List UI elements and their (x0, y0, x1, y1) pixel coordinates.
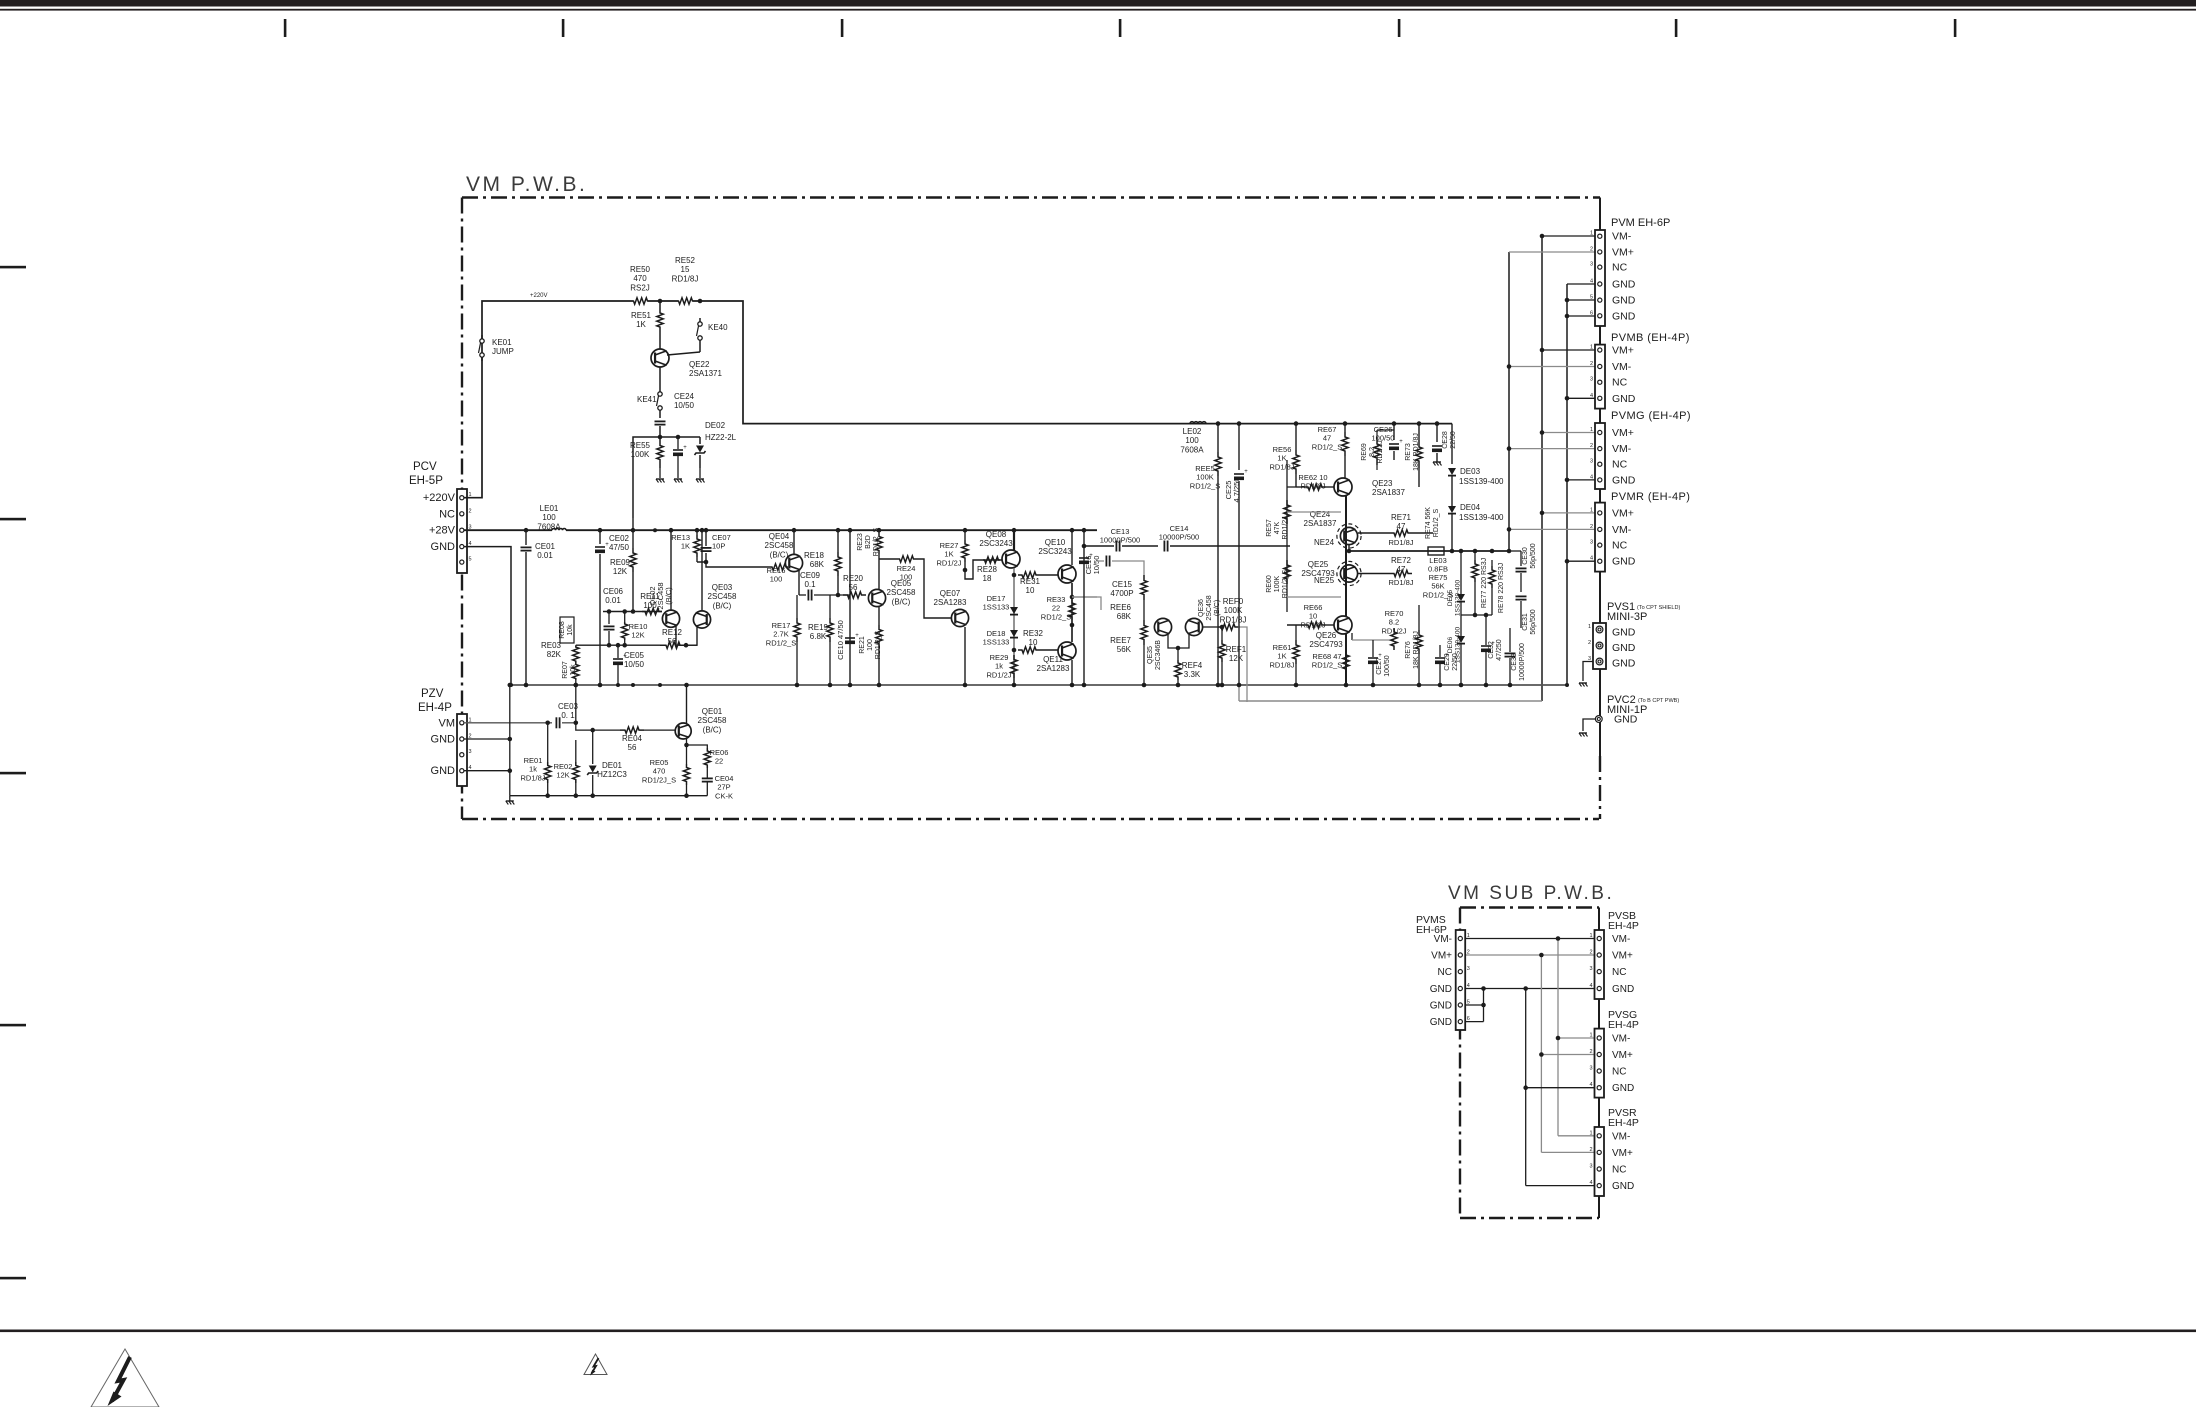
ground symbols under RE55/DE02 (659, 468, 661, 478)
svg-text:RE67: RE67 (1318, 425, 1337, 434)
svg-text:PZV: PZV (421, 688, 444, 700)
svg-text:82K: 82K (547, 650, 562, 659)
resistor RE20 56 (843, 592, 866, 598)
svg-text:1SS139-400: 1SS139-400 (1455, 627, 1462, 664)
svg-text:RD1/8J: RD1/8J (1300, 620, 1325, 629)
resistor REF1 12K (1221, 627, 1223, 640)
svg-text:NC: NC (1612, 967, 1626, 978)
svg-text:CE06: CE06 (603, 587, 624, 596)
svg-text:2SC3243: 2SC3243 (1038, 547, 1072, 556)
svg-text:RD1/2_S: RD1/2_S (1190, 481, 1220, 490)
svg-text:56K: 56K (1431, 582, 1444, 591)
resistor RE10 (624, 612, 626, 623)
wire QE11 collector down (1071, 660, 1073, 685)
transistor QE26 2SC4793 (1334, 616, 1352, 634)
svg-text:QE23: QE23 (1372, 479, 1393, 488)
svg-text:EH-5P: EH-5P (409, 475, 443, 487)
resistor RE23 B2D (878, 530, 880, 533)
resistor RE02 12K (575, 740, 577, 762)
zener DE01 HZ12C3 (592, 730, 594, 764)
svg-text:PVM EH-6P: PVM EH-6P (1611, 217, 1670, 229)
svg-text:EH-4P: EH-4P (1608, 1117, 1639, 1129)
svg-text:(B/C): (B/C) (713, 601, 732, 610)
svg-text:CE31: CE31 (1522, 613, 1529, 631)
wire PVMG pin2 (1509, 448, 1595, 450)
transistor QE35 2SC3468 (1154, 618, 1171, 635)
svg-text:VM P.W.B.: VM P.W.B. (466, 173, 587, 196)
resistor RE72 47 (1358, 573, 1390, 575)
resistor REF4 3.3K (1177, 648, 1179, 660)
resistor RE05 470 (683, 764, 689, 785)
svg-text:PVMR (EH-4P): PVMR (EH-4P) (1611, 491, 1690, 503)
svg-text:10000P/500: 10000P/500 (1100, 536, 1140, 545)
svg-text:RD1/8J: RD1/8J (1388, 538, 1413, 547)
wire PVMS pin6 link (1465, 1021, 1484, 1023)
svg-text:VM-: VM- (1612, 231, 1632, 243)
wire QE35 QE36 emitters (1168, 634, 1189, 648)
svg-text:3: 3 (1589, 1164, 1592, 1170)
svg-text:QE01: QE01 (702, 707, 723, 716)
capacitor CE05 (613, 658, 623, 660)
resistor RE77 220 RS3J (1474, 551, 1476, 560)
svg-text:2: 2 (1589, 950, 1592, 956)
svg-text:QE36: QE36 (1198, 599, 1205, 617)
svg-text:1K: 1K (1277, 454, 1286, 463)
svg-text:0. 1: 0. 1 (561, 711, 575, 720)
junction dots 28V bus (524, 528, 528, 532)
svg-text:2: 2 (1467, 950, 1470, 956)
svg-text:5: 5 (469, 557, 472, 563)
svg-text:1: 1 (1467, 933, 1470, 939)
svg-text:6.8K: 6.8K (810, 632, 827, 641)
svg-text:VM+: VM+ (1612, 345, 1634, 357)
svg-text:4: 4 (1590, 556, 1593, 562)
wire PVM pin1 (1542, 235, 1595, 237)
svg-text:RD1/2J_S: RD1/2J_S (642, 775, 676, 784)
svg-text:4: 4 (1590, 474, 1593, 480)
ground symbol PVS1 (1579, 682, 1587, 684)
svg-text:RE18: RE18 (804, 551, 825, 560)
svg-text:1SS139-400: 1SS139-400 (1459, 513, 1504, 522)
svg-text:2SA1283: 2SA1283 (1037, 664, 1070, 673)
svg-text:RE68 47: RE68 47 (1312, 652, 1341, 661)
wire QE02 collector up (670, 530, 672, 610)
svg-text:1K: 1K (1277, 652, 1286, 661)
svg-text:47: 47 (1323, 434, 1331, 443)
svg-text:2SA1837: 2SA1837 (1372, 488, 1405, 497)
svg-text:NE25: NE25 (1314, 576, 1335, 585)
svg-text:NE24: NE24 (1314, 538, 1335, 547)
svg-text:3: 3 (1590, 262, 1593, 268)
svg-text:RE20: RE20 (843, 574, 864, 583)
svg-text:CE15: CE15 (1112, 580, 1133, 589)
wire QE03 collector up (701, 530, 703, 611)
svg-text:RE32: RE32 (1023, 629, 1044, 638)
resistor RE71 47 (1358, 532, 1390, 534)
svg-text:18K RD1/8J: 18K RD1/8J (1413, 433, 1420, 471)
wire PVS1 ground (1583, 662, 1593, 682)
capacitor CE32 47/250 (1481, 645, 1491, 647)
wire PVM pin2 (1509, 251, 1595, 253)
svg-text:REF0: REF0 (1223, 597, 1244, 606)
svg-text:REE6: REE6 (1110, 603, 1131, 612)
transistor QE36 2SC458 (1185, 618, 1202, 635)
svg-text:2SA1283: 2SA1283 (934, 598, 967, 607)
svg-text:QE22: QE22 (689, 360, 710, 369)
svg-text:RE01: RE01 (524, 756, 543, 765)
wire +220V from PCV pin1 (464, 301, 633, 498)
svg-text:+: + (683, 445, 687, 451)
wire +220V mid (648, 300, 678, 302)
svg-text:QE11: QE11 (1043, 655, 1063, 664)
svg-text:10: 10 (1026, 586, 1035, 595)
wire QE04 collector (793, 530, 795, 554)
wire QE01 ground return (510, 795, 708, 797)
svg-text:2SC458: 2SC458 (708, 592, 737, 601)
svg-text:DE02: DE02 (705, 421, 726, 430)
wire PVMR pin2 (1509, 528, 1595, 530)
svg-text:10k: 10k (570, 664, 577, 676)
svg-text:GND: GND (1612, 627, 1636, 639)
VM P.W.B. board outline (462, 196, 1600, 198)
wire right end to DE03 (1451, 424, 1453, 464)
svg-text:+220V: +220V (530, 293, 548, 299)
wire RE13 CE07 to QE04 base (696, 557, 698, 562)
wire RE24 to QE07 base (916, 559, 951, 618)
svg-text:RE72: RE72 (1391, 556, 1412, 565)
svg-text:KE41: KE41 (637, 395, 657, 404)
svg-text:RD1/2J: RD1/2J (986, 670, 1011, 679)
capacitor CE30 56p/500 (1520, 551, 1522, 566)
svg-text:QE26: QE26 (1316, 631, 1337, 640)
diode DE06 1SS139-400 (1460, 602, 1462, 636)
svg-text:100: 100 (900, 573, 913, 582)
wire PVMR pin4 (1567, 560, 1595, 562)
wire PCV GND pin (464, 547, 511, 685)
svg-text:CE07: CE07 (712, 533, 731, 542)
svg-text:RE03: RE03 (541, 641, 562, 650)
resistor RE24 100 (879, 558, 897, 560)
resistor RE09 (632, 518, 634, 548)
svg-text:15: 15 (681, 265, 690, 274)
svg-text:GND: GND (1612, 556, 1636, 568)
resistor RE78 220 RS3J (1491, 560, 1493, 566)
svg-text:3: 3 (1589, 1066, 1592, 1072)
svg-text:100: 100 (770, 575, 783, 584)
svg-text:47/50: 47/50 (609, 543, 630, 552)
wire QE07 emitter / QE08 base (965, 560, 1002, 579)
wire PVSG pin4 (1526, 1087, 1595, 1089)
svg-text:1: 1 (1590, 231, 1593, 237)
svg-text:EH-4P: EH-4P (1608, 920, 1639, 932)
resistor RE07 10k (573, 663, 579, 680)
wire PVMB pin2 (1509, 366, 1595, 368)
svg-text:RE61: RE61 (1273, 643, 1292, 652)
svg-text:2SC458: 2SC458 (887, 588, 916, 597)
svg-text:0.1: 0.1 (804, 580, 816, 589)
svg-text:CE28: CE28 (1442, 431, 1449, 449)
jumper KE40 (698, 322, 702, 326)
svg-text:RD1/2J: RD1/2J (936, 558, 961, 567)
svg-text:CE01: CE01 (535, 542, 556, 551)
svg-text:6: 6 (1590, 310, 1593, 316)
svg-text:RD1/2_S: RD1/2_S (875, 630, 882, 659)
capacitor CE25 4.7/250 (1238, 424, 1240, 470)
svg-text:RS2J: RS2J (630, 283, 650, 292)
svg-text:RE52: RE52 (675, 256, 696, 265)
svg-text:1K: 1K (944, 550, 953, 559)
svg-text:2SC4793: 2SC4793 (1309, 640, 1343, 649)
resistor RE61 1K (1293, 640, 1299, 664)
svg-text:RE28: RE28 (977, 565, 998, 574)
wire DE04 down (1451, 514, 1453, 551)
capacitor CE13 10000P/500 (1084, 545, 1114, 547)
svg-text:RE75: RE75 (1429, 573, 1448, 582)
svg-text:5: 5 (1467, 1000, 1470, 1006)
resistor RE67 47 (1344, 424, 1346, 432)
svg-text:10/50: 10/50 (674, 401, 695, 410)
svg-text:18: 18 (983, 574, 992, 583)
svg-text:LE02: LE02 (1183, 427, 1202, 436)
wire VM- bus B (1541, 236, 1543, 701)
wire PVSR pin1 (1558, 1135, 1595, 1137)
capacitor CE09 (799, 594, 806, 596)
svg-text:HZ12C3: HZ12C3 (597, 770, 627, 779)
svg-text:NC: NC (1612, 540, 1628, 552)
svg-text:KE40: KE40 (708, 323, 728, 332)
svg-text:1K: 1K (636, 320, 646, 329)
transistor QE22 2SA1371 (659, 332, 661, 350)
svg-text:2SC3243: 2SC3243 (979, 539, 1013, 548)
svg-text:REF1: REF1 (1226, 645, 1247, 654)
warning triangle small (584, 1354, 607, 1375)
svg-text:1: 1 (1590, 507, 1593, 513)
wire PVMR pin1 (1542, 512, 1595, 514)
svg-text:4: 4 (1467, 983, 1470, 989)
capacitor CE15 4700P (1097, 560, 1104, 562)
svg-text:MINI-3P: MINI-3P (1607, 611, 1647, 623)
wire PVMS pin4 to PVSB pin4 (1465, 988, 1595, 990)
svg-text:GND: GND (1612, 642, 1636, 654)
svg-text:GND: GND (1612, 984, 1634, 995)
svg-text:12K: 12K (556, 771, 569, 780)
svg-text:JUMP: JUMP (492, 347, 514, 356)
svg-text:PCV: PCV (413, 461, 437, 473)
svg-text:RE10: RE10 (629, 622, 648, 631)
jumper KE41 (659, 367, 661, 388)
svg-text:VM SUB P.W.B.: VM SUB P.W.B. (1448, 883, 1614, 904)
svg-text:HZ22-2L: HZ22-2L (705, 433, 737, 442)
svg-text:3: 3 (469, 749, 472, 755)
svg-text:RE55: RE55 (630, 441, 651, 450)
svg-text:GND: GND (1612, 658, 1636, 670)
resistor RE11 (642, 608, 662, 614)
wire VM+ drive bus A (1508, 252, 1510, 551)
transistor QE11 2SA1283 (1058, 642, 1076, 660)
svg-text:68K: 68K (810, 560, 825, 569)
svg-text:10000P/500: 10000P/500 (1159, 533, 1199, 542)
svg-text:+: + (1244, 469, 1248, 475)
svg-text:CE30: CE30 (1522, 547, 1529, 565)
svg-text:RD1/8J: RD1/8J (520, 773, 545, 782)
svg-text:47: 47 (1397, 522, 1406, 531)
capacitor CE27 100/50 (1368, 657, 1378, 659)
capacitor CE07 10P (705, 530, 707, 546)
svg-text:RD1/2_S: RD1/2_S (1433, 508, 1440, 537)
svg-text:100K: 100K (1224, 606, 1243, 615)
inductor LE03 (1428, 547, 1444, 555)
wire PVSG pin1 (1558, 1037, 1595, 1039)
svg-text:2SC458: 2SC458 (765, 541, 794, 550)
svg-text:56: 56 (849, 583, 858, 592)
ground symbol QE01 block (506, 800, 514, 802)
svg-text:CE24: CE24 (674, 392, 695, 401)
svg-text:1: 1 (1589, 1130, 1592, 1136)
svg-text:(B/C): (B/C) (703, 725, 722, 734)
svg-text:CE05: CE05 (624, 651, 645, 660)
svg-text:NC: NC (1438, 967, 1452, 978)
svg-text:GND: GND (431, 765, 456, 777)
svg-text:RD1/2_S: RD1/2_S (1312, 442, 1342, 451)
wire PVM pin4 (1567, 283, 1595, 285)
resistor RE13 1K (696, 530, 698, 535)
resistor RE21 100 (878, 607, 880, 625)
svg-text:VM-: VM- (1612, 934, 1630, 945)
svg-text:100: 100 (542, 513, 556, 522)
resistor RE51 (659, 301, 661, 308)
svg-text:RE09: RE09 (610, 558, 631, 567)
resistor RE29 1k (1011, 655, 1017, 678)
svg-text:CE32: CE32 (1488, 641, 1495, 659)
wire PZV GND pins (464, 738, 510, 740)
svg-text:8.2: 8.2 (1389, 618, 1399, 627)
svg-text:47/250: 47/250 (1496, 639, 1503, 661)
wire PVMB pin4 (1567, 397, 1595, 399)
resistor RE76 18K (1416, 630, 1422, 654)
svg-text:10000P/500: 10000P/500 (1519, 643, 1526, 681)
transistor QE07 2SA1283 (951, 609, 968, 626)
svg-text:12K: 12K (631, 631, 644, 640)
wire PVC2 ground (1583, 719, 1595, 731)
svg-text:3: 3 (1590, 540, 1593, 546)
svg-text:2SC458: 2SC458 (698, 716, 727, 725)
diode DE17 1SS133 (1010, 607, 1018, 614)
svg-text:RE66: RE66 (1304, 603, 1323, 612)
svg-text:RD1/8J: RD1/8J (672, 274, 699, 283)
capacitor CE01 (525, 530, 527, 545)
svg-text:7608A: 7608A (537, 522, 561, 531)
svg-text:EH-4P: EH-4P (418, 702, 452, 714)
wire output to CE16 node (1072, 596, 1097, 598)
svg-text:RE56: RE56 (1273, 445, 1292, 454)
svg-text:RD1/2_S: RD1/2_S (766, 638, 796, 647)
wire QE23 base feed (1287, 486, 1296, 488)
wire PVMS pin2 to PVSB pin2 (1465, 954, 1595, 956)
svg-text:QE08: QE08 (986, 530, 1007, 539)
svg-text:RE05: RE05 (650, 758, 669, 767)
svg-text:68K: 68K (1117, 612, 1132, 621)
svg-text:GND: GND (1612, 1083, 1634, 1094)
svg-text:2SC458: 2SC458 (1206, 595, 1213, 620)
wire to RE09 branch (633, 437, 660, 518)
svg-text:100K: 100K (1274, 576, 1281, 593)
resistor REE5 100K (1217, 424, 1219, 452)
svg-text:1: 1 (1589, 933, 1592, 939)
wire REF0 right to output (1238, 627, 1247, 702)
svg-text:DE18: DE18 (987, 629, 1006, 638)
transistor QE08 2SC3243 (1002, 550, 1020, 568)
svg-text:REE7: REE7 (1110, 636, 1131, 645)
svg-text:1: 1 (1590, 427, 1593, 433)
wire +220V to right corner (693, 301, 1452, 424)
resistor REE6 68K (1141, 575, 1147, 600)
svg-text:RE13: RE13 (671, 533, 690, 542)
svg-text:GND: GND (1430, 1001, 1452, 1012)
svg-text:RE12: RE12 (662, 628, 683, 637)
resistor RE03 82K (573, 645, 579, 663)
svg-text:NC: NC (1612, 1067, 1626, 1078)
svg-text:4: 4 (1590, 393, 1593, 399)
svg-text:(B/C): (B/C) (770, 550, 789, 559)
svg-text:LE01: LE01 (540, 504, 559, 513)
svg-text:10P: 10P (712, 542, 725, 551)
svg-text:GND: GND (1430, 984, 1452, 995)
wire QE01 collector up (686, 685, 688, 723)
svg-text:1: 1 (1590, 345, 1593, 351)
wire QE08 emitter down diode chain (1013, 568, 1015, 685)
capacitor CE29 22/50 (1435, 657, 1445, 659)
diode DE04 1SS139-400 (1448, 506, 1456, 513)
svg-text:REF4: REF4 (1182, 661, 1203, 670)
wire QE24 QE25 bases (1287, 511, 1341, 513)
svg-text:VM-: VM- (1612, 1131, 1630, 1142)
svg-text:KE01: KE01 (492, 338, 512, 347)
capacitor CE10 47/50 (849, 530, 851, 685)
svg-text:100K: 100K (1196, 473, 1214, 482)
svg-text:VM+: VM+ (1612, 951, 1633, 962)
svg-text:QE10: QE10 (1045, 538, 1066, 547)
wire PVMS pin1 to PVSB pin1 (1465, 938, 1595, 940)
svg-text:RD1/8J: RD1/8J (1388, 578, 1413, 587)
svg-text:CE27: CE27 (1376, 657, 1383, 675)
transistor QE23 2SA1837 (1334, 478, 1352, 496)
wire QE05 collector (878, 554, 880, 590)
wire RE32 to QE11 base (1040, 649, 1058, 651)
svg-text:47: 47 (1397, 565, 1406, 574)
svg-text:RD1/8J: RD1/8J (1269, 660, 1294, 669)
svg-text:RD1/2J: RD1/2J (1381, 626, 1406, 635)
svg-text:RE71: RE71 (1391, 513, 1412, 522)
svg-text:RE60: RE60 (1266, 575, 1273, 593)
svg-text:RE27: RE27 (940, 541, 959, 550)
svg-text:1k: 1k (995, 662, 1003, 671)
svg-text:27P: 27P (717, 783, 730, 792)
svg-text:QE07: QE07 (940, 589, 961, 598)
zener DE02 HZ22-2L (699, 437, 701, 444)
capacitor CE24 (659, 414, 661, 418)
wire vm+ bus sub (1540, 955, 1542, 1152)
svg-text:RE76: RE76 (1405, 641, 1412, 659)
svg-text:RE73: RE73 (1405, 443, 1412, 461)
svg-text:QE25: QE25 (1308, 560, 1329, 569)
svg-text:RD1/8J: RD1/8J (1269, 462, 1294, 471)
resistor RE70 8.2 (1351, 633, 1353, 640)
svg-text:GND: GND (431, 734, 456, 746)
svg-text:22: 22 (715, 757, 723, 766)
resistor REE7 56K (1141, 620, 1147, 645)
wire NE24 emitter line (1348, 545, 1350, 551)
transistor QE25 2SC4793 NE25 (1337, 561, 1361, 585)
